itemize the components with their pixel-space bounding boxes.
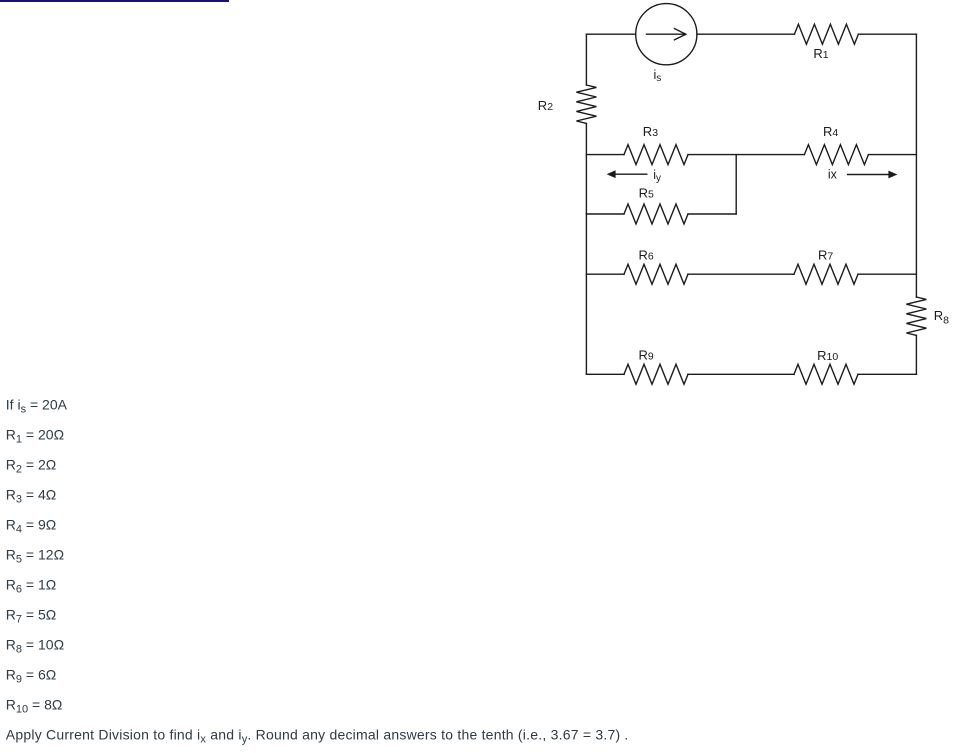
resistor R8 [906, 297, 926, 335]
wire R1 to top-right corner [858, 33, 916, 35]
resistor R10 [794, 364, 858, 384]
svg-text:R1​ = 20Ω: R1​ = 20Ω [6, 426, 64, 445]
arrow iy (points left) [607, 170, 648, 178]
svg-text:R7: R7 [818, 247, 833, 262]
svg-text:R7​ = 5Ω: R7​ = 5Ω [6, 606, 56, 625]
svg-text:R3​ = 4Ω: R3​ = 4Ω [6, 486, 56, 505]
wire R7 to right vertical [858, 273, 916, 275]
wire R4 to right vertical [868, 154, 916, 156]
resistor R5 [624, 204, 688, 224]
resistor R2 [576, 85, 596, 123]
svg-text:R3: R3 [643, 124, 658, 139]
svg-text:R6​ = 1Ω: R6​ = 1Ω [6, 576, 56, 595]
wire left vertical lower segment [585, 123, 587, 374]
svg-text:R10​ = 8Ω: R10​ = 8Ω [6, 696, 63, 715]
current source is circle [636, 4, 697, 65]
resistor R9 [624, 364, 688, 384]
wire left vertical upper segment [585, 34, 587, 85]
wire current source to R1 [697, 33, 795, 35]
wire top-left (node A to current source) [586, 33, 635, 35]
svg-text:is: is [654, 68, 662, 84]
resistor R4 [804, 145, 868, 165]
svg-text:R9: R9 [639, 347, 654, 362]
wire right vertical lower segment [915, 335, 917, 374]
svg-text:R4​ = 9Ω: R4​ = 9Ω [6, 516, 56, 535]
svg-text:R9​ = 6Ω: R9​ = 6Ω [6, 666, 56, 685]
wire left vertical to R9 [586, 373, 624, 375]
svg-text:R2​ = 2Ω: R2​ = 2Ω [6, 456, 56, 475]
arrow ix (points right) [847, 171, 898, 179]
wire right vertical upper segment [915, 34, 917, 297]
svg-text:R8: R8 [934, 308, 949, 326]
svg-text:R2: R2 [538, 98, 553, 113]
svg-text:Apply Current Division to find: Apply Current Division to find ix​ and i… [6, 726, 629, 745]
wire R10 to right vertical [858, 373, 916, 375]
svg-text:If is​ = 20A: If is​ = 20A [6, 396, 68, 415]
svg-text:R6: R6 [639, 247, 654, 262]
svg-text:ix: ix [828, 168, 838, 182]
svg-text:R5: R5 [639, 185, 654, 200]
svg-text:R8​ = 10Ω: R8​ = 10Ω [6, 636, 64, 655]
svg-text:R10: R10 [817, 348, 838, 363]
wire left vertical to R6 [586, 273, 624, 275]
resistor R6 [624, 264, 688, 284]
top navy rule [0, 0, 229, 2]
resistor R3 [624, 145, 688, 165]
svg-text:R1: R1 [813, 46, 828, 61]
svg-text:R5​ = 12Ω: R5​ = 12Ω [6, 546, 64, 565]
svg-text:R4: R4 [823, 124, 838, 139]
svg-text:iy: iy [653, 168, 661, 184]
wire R5 to junction [688, 213, 736, 215]
wire junction vertical [735, 155, 737, 214]
resistor R7 [794, 264, 858, 284]
wire R3 to R4 (through junction) [688, 154, 804, 156]
resistor R1 [794, 24, 858, 44]
wire R6 to R7 [688, 273, 794, 275]
wire left vertical to R5 [586, 213, 624, 215]
current source is arrow [647, 29, 686, 40]
wire R9 to R10 [688, 373, 794, 375]
wire node A to R3 [586, 154, 624, 156]
